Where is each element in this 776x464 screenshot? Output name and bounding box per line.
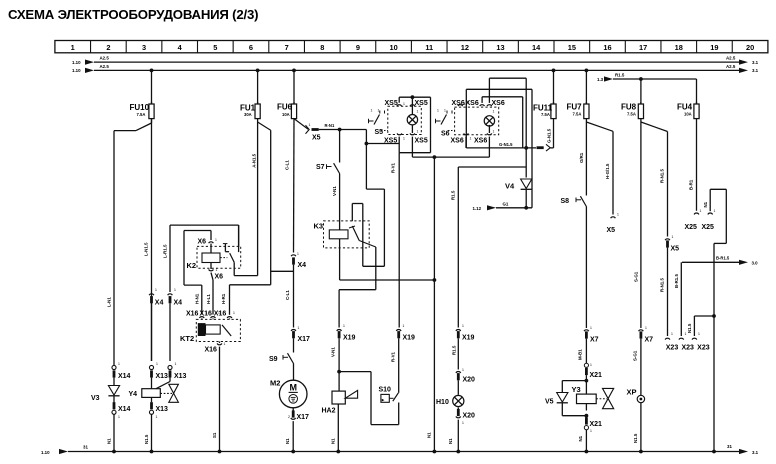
svg-text:1: 1 — [378, 109, 380, 113]
svg-text:X19: X19 — [403, 335, 416, 342]
svg-text:1: 1 — [215, 238, 217, 242]
svg-text:1: 1 — [685, 332, 687, 336]
svg-text:C-L1: C-L1 — [285, 290, 290, 300]
svg-text:XS5: XS5 — [385, 100, 398, 107]
svg-text:R1.5: R1.5 — [451, 190, 456, 200]
svg-text:1: 1 — [403, 102, 405, 106]
svg-text:1: 1 — [156, 362, 158, 366]
svg-text:N1: N1 — [107, 438, 112, 444]
svg-text:12: 12 — [461, 43, 469, 52]
svg-text:H-G/1.5: H-G/1.5 — [605, 163, 610, 179]
svg-text:1: 1 — [590, 326, 592, 330]
svg-text:▶: ▶ — [382, 398, 385, 402]
svg-text:10A: 10A — [684, 112, 692, 117]
svg-text:17: 17 — [639, 43, 647, 52]
svg-text:M: M — [289, 383, 297, 393]
svg-text:S8: S8 — [561, 198, 570, 205]
svg-text:1: 1 — [371, 109, 373, 113]
svg-text:1: 1 — [206, 311, 208, 315]
svg-text:1: 1 — [698, 332, 700, 336]
svg-text:X4: X4 — [298, 262, 307, 269]
svg-text:C-L1: C-L1 — [285, 160, 290, 170]
svg-text:B-R1.5: B-R1.5 — [674, 274, 679, 288]
svg-text:X23: X23 — [697, 345, 710, 352]
svg-text:1: 1 — [156, 415, 158, 419]
svg-text:X21: X21 — [590, 421, 603, 428]
svg-text:KT2: KT2 — [180, 334, 194, 343]
svg-text:XS5: XS5 — [384, 137, 397, 144]
svg-text:N1: N1 — [331, 438, 336, 444]
svg-text:X19: X19 — [343, 335, 356, 342]
svg-text:1: 1 — [700, 209, 702, 213]
svg-text:1: 1 — [417, 110, 419, 114]
svg-text:1: 1 — [714, 209, 716, 213]
svg-text:13: 13 — [496, 43, 504, 52]
svg-text:1: 1 — [462, 421, 464, 425]
svg-text:N1: N1 — [427, 432, 432, 438]
svg-text:1: 1 — [645, 326, 647, 330]
svg-text:7: 7 — [285, 43, 289, 52]
svg-text:1: 1 — [233, 311, 235, 315]
svg-text:15: 15 — [568, 43, 576, 52]
svg-text:X4: X4 — [174, 300, 183, 307]
svg-text:1: 1 — [403, 324, 405, 328]
svg-text:7.5A: 7.5A — [573, 112, 582, 117]
svg-text:1.10: 1.10 — [72, 68, 81, 73]
svg-text:X14: X14 — [118, 373, 131, 380]
svg-text:X16: X16 — [205, 347, 218, 354]
svg-text:X13: X13 — [156, 373, 169, 380]
svg-text:S6: S6 — [441, 131, 450, 138]
svg-text:H-L1: H-L1 — [206, 294, 211, 304]
svg-text:FU4: FU4 — [677, 103, 693, 112]
svg-text:HA2: HA2 — [322, 408, 336, 415]
svg-text:1: 1 — [174, 288, 176, 292]
svg-text:1: 1 — [224, 342, 226, 346]
svg-text:1: 1 — [672, 235, 674, 239]
svg-text:S7: S7 — [316, 164, 325, 171]
svg-text:M2: M2 — [270, 379, 280, 388]
svg-text:L-N1.5: L-N1.5 — [144, 242, 149, 256]
svg-text:СХЕМА ЭЛЕКТРООБОРУДОВАНИЯ (2/3: СХЕМА ЭЛЕКТРООБОРУДОВАНИЯ (2/3) — [8, 7, 258, 22]
svg-text:1: 1 — [297, 252, 299, 256]
svg-text:1.3: 1.3 — [597, 77, 604, 82]
svg-text:A2.5: A2.5 — [100, 64, 110, 69]
svg-text:X16: X16 — [186, 311, 199, 318]
svg-text:K2: K2 — [187, 261, 197, 270]
svg-text:7.5A: 7.5A — [541, 112, 550, 117]
svg-text:X20: X20 — [463, 413, 476, 420]
svg-text:2: 2 — [288, 415, 290, 419]
svg-text:X6: X6 — [198, 239, 207, 246]
svg-text:N1: N1 — [703, 201, 708, 207]
svg-text:S1: S1 — [212, 432, 217, 438]
svg-text:9: 9 — [356, 43, 360, 52]
svg-text:XS6: XS6 — [451, 137, 464, 144]
svg-text:10: 10 — [389, 43, 397, 52]
svg-text:8: 8 — [320, 43, 324, 52]
svg-text:FU8: FU8 — [621, 103, 637, 112]
svg-text:20: 20 — [746, 43, 754, 52]
svg-text:N1.5: N1.5 — [633, 433, 638, 443]
svg-text:A-N1.5: A-N1.5 — [252, 153, 257, 167]
svg-text:14: 14 — [532, 43, 541, 52]
svg-text:7.5A: 7.5A — [627, 112, 636, 117]
svg-text:1: 1 — [118, 362, 120, 366]
svg-text:16: 16 — [603, 43, 611, 52]
svg-text:V4: V4 — [505, 182, 515, 191]
svg-text:1: 1 — [118, 415, 120, 419]
svg-text:19: 19 — [710, 43, 718, 52]
svg-text:X20: X20 — [463, 377, 476, 384]
svg-text:X6: X6 — [215, 274, 224, 281]
svg-text:1: 1 — [671, 332, 673, 336]
svg-text:S-G1: S-G1 — [634, 271, 639, 282]
svg-text:S-G1: S-G1 — [633, 350, 638, 361]
svg-text:31: 31 — [727, 444, 732, 449]
svg-text:K3: K3 — [314, 222, 324, 231]
svg-text:30A: 30A — [244, 112, 252, 117]
svg-text:R1.5: R1.5 — [452, 345, 457, 355]
svg-text:Y3: Y3 — [572, 385, 581, 394]
svg-text:1: 1 — [470, 137, 472, 141]
svg-text:X25: X25 — [685, 224, 698, 231]
svg-text:A2.5: A2.5 — [726, 64, 736, 69]
svg-text:X17: X17 — [297, 414, 310, 421]
svg-text:1: 1 — [417, 130, 419, 134]
svg-text:1: 1 — [462, 368, 464, 372]
svg-text:XS5: XS5 — [415, 100, 428, 107]
svg-text:2: 2 — [106, 43, 110, 52]
svg-text:X5: X5 — [312, 135, 321, 142]
svg-text:3.0: 3.0 — [752, 261, 759, 266]
svg-text:Y4: Y4 — [129, 391, 138, 398]
svg-text:1.12: 1.12 — [473, 206, 482, 211]
svg-text:X21: X21 — [590, 372, 603, 379]
svg-text:1: 1 — [617, 213, 619, 217]
svg-text:B-R1: B-R1 — [689, 179, 694, 190]
svg-text:L-N1: L-N1 — [107, 297, 112, 307]
svg-text:X5: X5 — [607, 227, 616, 234]
svg-text:1: 1 — [403, 137, 405, 141]
svg-text:R-N1: R-N1 — [325, 123, 335, 128]
svg-text:1: 1 — [493, 110, 495, 114]
svg-text:R-N1.5: R-N1.5 — [660, 169, 665, 183]
svg-text:1.10: 1.10 — [41, 450, 50, 455]
svg-text:X13: X13 — [156, 406, 169, 413]
svg-text:1: 1 — [464, 102, 466, 106]
svg-text:1: 1 — [444, 109, 446, 113]
svg-text:1: 1 — [218, 311, 220, 315]
svg-text:3.1: 3.1 — [752, 60, 759, 65]
svg-text:FU6: FU6 — [277, 103, 293, 112]
svg-text:X23: X23 — [681, 345, 694, 352]
svg-text:L-R1.5: L-R1.5 — [163, 244, 168, 258]
svg-text:3: 3 — [142, 43, 146, 52]
svg-text:G/R1: G/R1 — [579, 152, 584, 163]
svg-text:V3: V3 — [91, 395, 100, 402]
svg-text:G-N1.5: G-N1.5 — [547, 128, 552, 143]
svg-text:B-R1.5: B-R1.5 — [716, 256, 730, 261]
svg-text:X25: X25 — [702, 224, 715, 231]
svg-text:6: 6 — [249, 43, 253, 52]
svg-text:G1: G1 — [503, 202, 509, 207]
svg-text:V5: V5 — [545, 399, 554, 406]
svg-text:18: 18 — [675, 43, 683, 52]
svg-text:1: 1 — [462, 324, 464, 328]
svg-text:X19: X19 — [462, 335, 475, 342]
svg-text:1: 1 — [493, 130, 495, 134]
svg-text:XS6: XS6 — [492, 100, 505, 107]
svg-text:11: 11 — [425, 43, 433, 52]
svg-text:H-R1: H-R1 — [221, 293, 226, 304]
svg-text:X7: X7 — [645, 337, 654, 344]
svg-text:R-V1: R-V1 — [391, 162, 396, 173]
svg-text:X13: X13 — [174, 373, 187, 380]
svg-text:3.1: 3.1 — [752, 68, 759, 73]
svg-text:R-V1: R-V1 — [391, 351, 396, 362]
svg-text:1: 1 — [590, 429, 592, 433]
svg-text:X23: X23 — [666, 345, 679, 352]
svg-text:N1.5: N1.5 — [687, 323, 692, 333]
svg-text:N1: N1 — [448, 438, 453, 444]
svg-text:X7: X7 — [590, 337, 599, 344]
svg-text:1: 1 — [298, 326, 300, 330]
svg-text:1: 1 — [437, 109, 439, 113]
svg-text:H10: H10 — [436, 399, 449, 406]
svg-text:X17: X17 — [298, 336, 311, 343]
svg-text:1: 1 — [343, 324, 345, 328]
svg-text:X14: X14 — [118, 406, 131, 413]
svg-text:XS6: XS6 — [474, 137, 487, 144]
svg-text:H-N1: H-N1 — [194, 293, 199, 304]
svg-text:1: 1 — [155, 288, 157, 292]
svg-text:V-N1: V-N1 — [331, 347, 336, 357]
svg-text:5: 5 — [213, 43, 217, 52]
svg-text:X16: X16 — [214, 311, 227, 318]
svg-text:N1.5: N1.5 — [144, 434, 149, 444]
svg-text:XP: XP — [627, 388, 637, 397]
svg-text:V-N1: V-N1 — [332, 186, 337, 196]
svg-text:N1: N1 — [285, 438, 290, 444]
svg-text:XS5: XS5 — [415, 137, 428, 144]
svg-text:X4: X4 — [155, 300, 164, 307]
svg-text:R1.5: R1.5 — [615, 73, 625, 78]
svg-text:A2.5: A2.5 — [100, 56, 110, 61]
svg-text:S10: S10 — [379, 387, 392, 394]
svg-text:A2.5: A2.5 — [726, 56, 736, 61]
svg-text:1.10: 1.10 — [72, 60, 81, 65]
svg-text:R-N1.5: R-N1.5 — [660, 278, 665, 292]
svg-text:XS6: XS6 — [466, 100, 479, 107]
svg-text:N1: N1 — [578, 435, 583, 441]
svg-text:FU10: FU10 — [130, 103, 150, 112]
svg-text:1: 1 — [71, 43, 75, 52]
svg-text:1: 1 — [590, 363, 592, 367]
svg-text:S9: S9 — [269, 356, 278, 363]
svg-text:G-N1.5: G-N1.5 — [499, 142, 513, 147]
svg-text:FU7: FU7 — [567, 103, 583, 112]
svg-text:X5: X5 — [671, 246, 680, 253]
svg-text:3.1: 3.1 — [752, 450, 759, 455]
svg-text:10A: 10A — [282, 112, 290, 117]
svg-text:1: 1 — [309, 123, 311, 127]
svg-text:1: 1 — [216, 268, 218, 272]
svg-text:7.5A: 7.5A — [137, 112, 146, 117]
svg-text:1: 1 — [175, 362, 177, 366]
svg-text:M-B1: M-B1 — [578, 349, 583, 360]
svg-text:31: 31 — [83, 445, 88, 450]
